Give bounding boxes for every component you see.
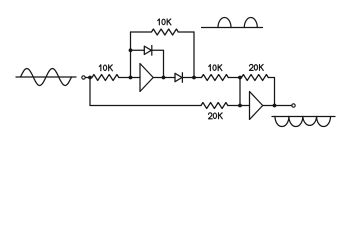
wire riser node A to top rail (130, 32, 132, 78)
resistor R4 20K feedback (242, 75, 269, 81)
diode D2 cathode bar (181, 73, 183, 83)
wire drop from input node to bottom rail (89, 78, 91, 106)
output waveform hump 4 (317, 117, 331, 127)
output waveform hump 3 (303, 117, 317, 126)
wire R1 to op-amp U1 input (119, 77, 140, 79)
wire U2 output to output terminal (263, 105, 292, 107)
label R2 10K (158, 19, 171, 25)
wire top rail drop to node B (193, 32, 195, 78)
output waveform hump 1 (275, 117, 289, 127)
junction node C (238, 76, 242, 80)
wire input to R1 (85, 77, 92, 79)
output waveform axis (272, 116, 335, 118)
diode D1 (144, 46, 151, 54)
label R4 20K (249, 64, 263, 70)
wire D2 to R3 (182, 77, 201, 79)
resistor R2 10K feedback (152, 29, 179, 35)
junction node C bottom (238, 104, 242, 108)
half-wave waveform hump 2 (244, 18, 257, 28)
resistor R5 20K (201, 103, 228, 109)
wire D1 anode (131, 49, 145, 51)
wire D1 cathode to drop (152, 50, 164, 77)
resistor R3 10K (202, 75, 229, 81)
resistor R1 10K (92, 75, 119, 81)
junction node B (192, 76, 196, 80)
junction U2 output feedback (273, 104, 277, 108)
op-amp U1 (140, 64, 153, 92)
diode D1 cathode bar (151, 46, 153, 56)
junction input node (88, 76, 92, 80)
wire node C drop to U2 input (239, 78, 241, 106)
label R1 10K (99, 65, 112, 71)
input sine waveform axis (16, 76, 76, 78)
half-wave waveform axis (202, 27, 263, 29)
op-amp U2 (250, 92, 263, 120)
junction node A (129, 76, 133, 80)
wire top rail right (178, 31, 194, 33)
label R5 20K (208, 113, 222, 119)
wire R4 to output drop (268, 78, 274, 106)
junction D1 branch (129, 48, 133, 52)
input terminal (82, 76, 85, 79)
wire bottom rail left (90, 105, 201, 107)
label R3 10K (209, 65, 222, 71)
input sine waveform (21, 69, 72, 86)
wire R3 to R4 through node C (228, 77, 241, 79)
wire top rail left (131, 31, 152, 33)
wire U1 output to D2 (153, 77, 175, 79)
junction U1 output / D1 return (162, 76, 166, 80)
output terminal (292, 104, 295, 107)
diode D2 (175, 73, 182, 81)
half-wave waveform hump 1 (218, 18, 231, 28)
output waveform hump 2 (289, 117, 303, 127)
wire R5 to U2 input (228, 105, 250, 107)
